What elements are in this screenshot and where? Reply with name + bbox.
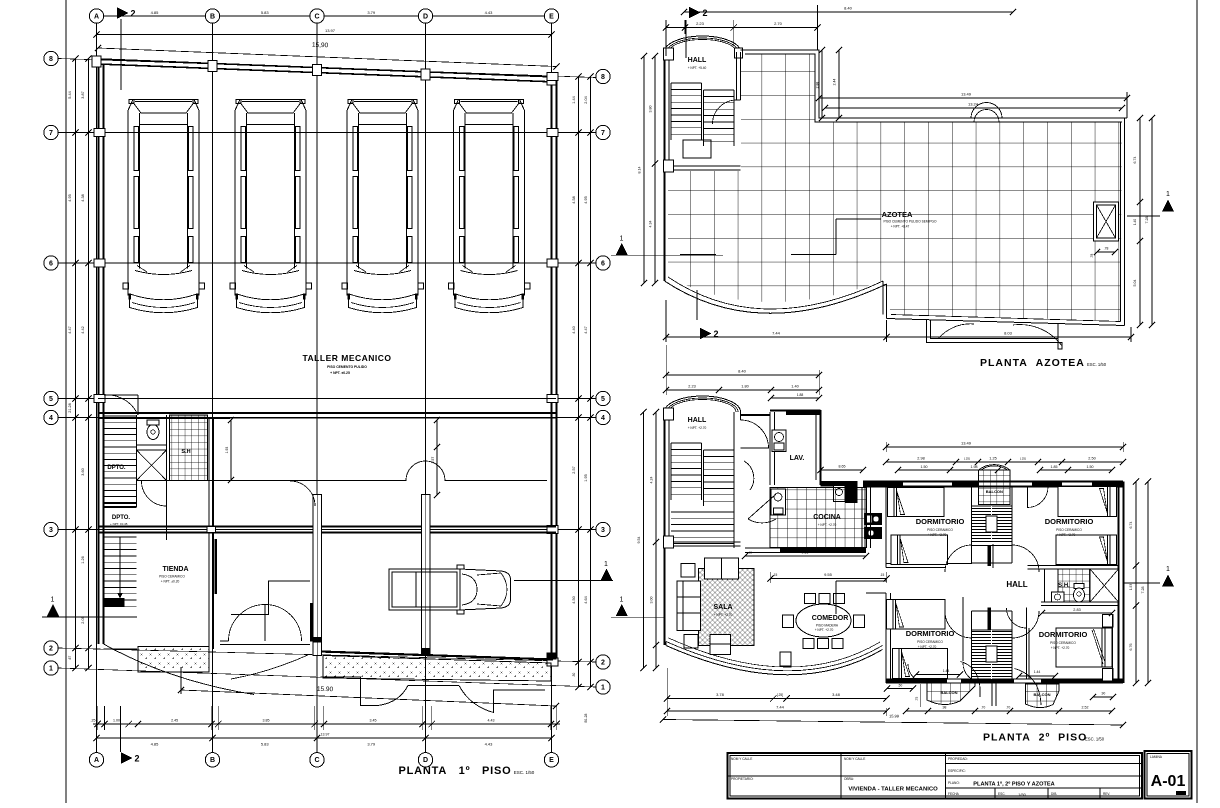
svg-text:2.45: 2.45: [171, 719, 178, 723]
svg-text:DPTO.: DPTO.: [112, 515, 131, 521]
svg-text:13.97: 13.97: [321, 732, 330, 736]
svg-text:1.00: 1.00: [113, 719, 120, 723]
svg-text:2: 2: [702, 8, 707, 18]
svg-text:2: 2: [601, 659, 605, 666]
svg-text:+ NPT. +2.70: + NPT. +2.70: [714, 613, 733, 617]
svg-text:4.43: 4.43: [488, 719, 495, 723]
svg-text:4.58: 4.58: [572, 196, 576, 203]
svg-text:.78: .78: [1090, 254, 1094, 259]
svg-text:1.25: 1.25: [989, 457, 996, 461]
svg-text:C: C: [314, 757, 319, 764]
svg-text:1: 1: [620, 236, 624, 243]
svg-text:PISO CERAMICO: PISO CERAMICO: [1056, 528, 1082, 532]
svg-text:4.34: 4.34: [649, 221, 653, 228]
svg-text:1: 1: [1166, 191, 1170, 198]
svg-text:+ NPT. ±0.25: + NPT. ±0.25: [330, 371, 350, 375]
svg-text:21.28: 21.28: [68, 403, 72, 413]
svg-text:1: 1: [49, 665, 53, 672]
svg-text:2.57: 2.57: [572, 466, 576, 473]
svg-text:4.47: 4.47: [584, 326, 588, 333]
svg-text:3.79: 3.79: [367, 10, 376, 15]
svg-text:4.38: 4.38: [81, 194, 85, 201]
svg-text:1.80: 1.80: [741, 385, 748, 389]
svg-text:B: B: [210, 757, 215, 764]
svg-text:OBRA:: OBRA:: [844, 777, 854, 781]
svg-text:DORMITORIO: DORMITORIO: [916, 517, 965, 526]
svg-text:.70: .70: [1006, 706, 1011, 710]
svg-text:.30: .30: [572, 673, 576, 678]
svg-text:2: 2: [713, 329, 718, 339]
svg-text:A: A: [94, 757, 99, 764]
svg-text:2.50: 2.50: [1088, 457, 1095, 461]
svg-text:1/50: 1/50: [1018, 793, 1025, 797]
svg-text:3.48: 3.48: [832, 692, 841, 697]
svg-text:BALCON: BALCON: [1033, 692, 1050, 697]
svg-text:7: 7: [49, 130, 53, 137]
svg-text:TIENDA: TIENDA: [162, 566, 188, 573]
svg-text:NOM Y CALLE: NOM Y CALLE: [731, 757, 752, 761]
svg-text:DORMITORIO: DORMITORIO: [1045, 517, 1094, 526]
svg-text:3.45: 3.45: [370, 719, 377, 723]
svg-text:+ NPT. +2.70: + NPT. +2.70: [1057, 533, 1076, 537]
svg-text:PLANTA AZOTEA: PLANTA AZOTEA: [980, 357, 1085, 369]
svg-text:+ NPT. +2.70: + NPT. +2.70: [928, 533, 947, 537]
svg-text:1.50: 1.50: [1087, 465, 1094, 469]
svg-text:ESC. 1/50: ESC. 1/50: [1085, 737, 1105, 742]
svg-text:[.25]: [.25]: [964, 457, 970, 461]
svg-text:3.00: 3.00: [650, 597, 654, 604]
svg-text:+ NPT. +2.70: + NPT. +2.70: [815, 628, 834, 632]
svg-text:TALLER MECANICO: TALLER MECANICO: [302, 353, 391, 363]
svg-text:AZOTEA: AZOTEA: [882, 210, 913, 219]
svg-text:1.85: 1.85: [1051, 465, 1058, 469]
svg-text:2.23: 2.23: [688, 385, 695, 389]
svg-text:1.44: 1.44: [1034, 670, 1041, 674]
svg-text:.75: .75: [915, 697, 919, 702]
svg-text:3.87: 3.87: [81, 91, 85, 98]
svg-text:4.43: 4.43: [485, 742, 494, 747]
svg-text:9.55: 9.55: [824, 572, 833, 577]
svg-text:8.03: 8.03: [1004, 331, 1013, 336]
svg-text:DORMITORIO: DORMITORIO: [1039, 630, 1088, 639]
svg-text:LAMINA: LAMINA: [1150, 755, 1163, 759]
svg-text:1.50: 1.50: [921, 465, 928, 469]
svg-text:.50: .50: [898, 684, 903, 688]
svg-text:PROPIEDAD:: PROPIEDAD:: [948, 757, 968, 761]
svg-text:6.74: 6.74: [1133, 157, 1137, 164]
svg-text:8: 8: [601, 74, 605, 81]
svg-text:COCINA: COCINA: [813, 514, 841, 521]
svg-text:15.90: 15.90: [317, 686, 334, 693]
svg-text:+ NPT. ±0.45: + NPT. ±0.45: [110, 522, 128, 526]
svg-text:LAV.: LAV.: [790, 455, 805, 462]
svg-text:7.28: 7.28: [1141, 587, 1145, 594]
svg-text:PISO MADERA: PISO MADERA: [816, 624, 839, 628]
svg-text:S.H: S.H: [181, 449, 190, 455]
svg-text:B1.28: B1.28: [584, 713, 588, 722]
svg-text:3: 3: [49, 527, 53, 534]
svg-text:2.44: 2.44: [833, 79, 837, 86]
svg-text:1: 1: [601, 684, 605, 691]
svg-text:4.40: 4.40: [572, 326, 576, 333]
svg-text:6.76: 6.76: [1129, 644, 1133, 651]
svg-text:6.74: 6.74: [1129, 522, 1133, 529]
svg-text:PISO CERAMICO: PISO CERAMICO: [927, 528, 953, 532]
svg-text:PLANTA 1º, 2º PISO Y AZOTEA: PLANTA 1º, 2º PISO Y AZOTEA: [973, 782, 1054, 788]
svg-text:.90: .90: [1101, 692, 1106, 696]
svg-text:1.40: 1.40: [791, 385, 798, 389]
svg-text:1: 1: [1166, 566, 1170, 573]
svg-text:PROPIETARIO:: PROPIETARIO:: [731, 777, 754, 781]
svg-text:.25: .25: [91, 719, 96, 723]
svg-text:+ NPT. +2.70: + NPT. +2.70: [688, 426, 707, 430]
svg-text:13.97: 13.97: [325, 28, 336, 33]
svg-text:[.25]: [.25]: [1020, 457, 1026, 461]
svg-text:3.78: 3.78: [716, 692, 725, 697]
svg-text:1.98: 1.98: [971, 465, 978, 469]
svg-text:4: 4: [49, 415, 53, 422]
svg-text:FECHA: FECHA: [948, 792, 960, 796]
svg-text:7.44: 7.44: [776, 705, 785, 710]
svg-text:PISO CEMENTO PULIDO: PISO CEMENTO PULIDO: [327, 365, 367, 369]
svg-text:5.04: 5.04: [1133, 280, 1137, 287]
svg-text:1.44: 1.44: [943, 669, 950, 673]
svg-text:2.04: 2.04: [584, 96, 588, 103]
svg-text:PLANO:: PLANO:: [948, 781, 960, 785]
svg-text:2.88: 2.88: [816, 82, 820, 89]
svg-text:6: 6: [601, 260, 605, 267]
svg-text:+ NPT. +2.70: + NPT. +2.70: [818, 523, 837, 527]
svg-text:5: 5: [49, 396, 53, 403]
svg-text:9.54: 9.54: [637, 537, 641, 544]
svg-text:BALCON: BALCON: [986, 489, 1003, 494]
svg-text:ESC.: ESC.: [998, 792, 1006, 796]
svg-text:DPTO.: DPTO.: [107, 465, 126, 471]
svg-text:DORMITORIO: DORMITORIO: [906, 629, 955, 638]
svg-text:VIVIENDA - TALLER MECANICO: VIVIENDA - TALLER MECANICO: [848, 787, 938, 793]
svg-text:[.25]: [.25]: [777, 693, 783, 697]
svg-text:2: 2: [49, 645, 53, 652]
svg-text:.15: .15: [773, 573, 778, 577]
svg-text:.67: .67: [68, 656, 72, 661]
svg-text:4.43: 4.43: [485, 10, 494, 15]
svg-text:D: D: [423, 757, 428, 764]
svg-text:13.49: 13.49: [961, 92, 972, 97]
svg-text:6: 6: [49, 260, 53, 267]
svg-text:2.05: 2.05: [81, 616, 85, 623]
svg-text:PISO CEMENTO PULIDO SEMIPGO: PISO CEMENTO PULIDO SEMIPGO: [884, 220, 937, 224]
svg-text:1.40: 1.40: [1133, 219, 1137, 225]
svg-text:+ NPT. +2.70: + NPT. +2.70: [918, 645, 937, 649]
svg-text:7: 7: [601, 130, 605, 137]
svg-text:5.83: 5.83: [261, 10, 270, 15]
svg-text:HALL: HALL: [1006, 580, 1027, 589]
svg-text:15,90: 15,90: [312, 42, 329, 50]
svg-text:4.42: 4.42: [81, 326, 85, 333]
svg-text:C: C: [314, 13, 319, 20]
svg-text:8.40: 8.40: [844, 6, 853, 11]
svg-text:15.99: 15.99: [889, 713, 900, 718]
svg-text:2.70: 2.70: [774, 21, 783, 26]
svg-text:+ NPT. +2.70: + NPT. +2.70: [1051, 646, 1070, 650]
svg-text:13.49: 13.49: [961, 441, 972, 446]
svg-text:4.47: 4.47: [68, 326, 72, 333]
svg-text:.78: .78: [1104, 247, 1109, 251]
svg-text:1.26: 1.26: [81, 556, 85, 563]
svg-text:1.88: 1.88: [797, 393, 804, 397]
svg-text:D: D: [423, 13, 428, 20]
svg-text:2.98: 2.98: [917, 457, 924, 461]
svg-text:.90: .90: [987, 555, 991, 560]
svg-text:ESC. 1/50: ESC. 1/50: [514, 770, 535, 775]
svg-text:ESPECIFIC:: ESPECIFIC:: [948, 769, 966, 773]
svg-text:13.24: 13.24: [968, 102, 979, 107]
svg-text:1: 1: [620, 597, 624, 604]
svg-text:+ NPT. +5.40: + NPT. +5.40: [688, 66, 707, 70]
svg-text:2: 2: [130, 9, 135, 19]
svg-text:1: 1: [604, 561, 608, 568]
svg-text:8.65: 8.65: [839, 465, 846, 469]
svg-text:4.24: 4.24: [650, 477, 654, 484]
svg-text:1.93: 1.93: [225, 447, 229, 454]
svg-text:3.60: 3.60: [81, 468, 85, 475]
svg-text:REV.: REV.: [1103, 792, 1110, 796]
svg-text:4.64: 4.64: [584, 596, 588, 603]
svg-text:NOM Y CALLE: NOM Y CALLE: [844, 757, 865, 761]
svg-text:5.83: 5.83: [261, 742, 270, 747]
svg-text:PLANTA 1º PISO: PLANTA 1º PISO: [399, 765, 512, 777]
svg-text:E: E: [549, 757, 554, 764]
svg-text:PLANTA 2º PISO: PLANTA 2º PISO: [983, 732, 1087, 744]
svg-text:5.44: 5.44: [68, 91, 72, 98]
svg-text:HALL: HALL: [688, 417, 707, 424]
svg-text:A-01: A-01: [1151, 773, 1186, 790]
svg-text:A: A: [94, 13, 99, 20]
svg-text:4.95: 4.95: [584, 196, 588, 203]
svg-text:2.83: 2.83: [1073, 608, 1080, 612]
svg-text:.15: .15: [880, 573, 885, 577]
svg-text:8.40: 8.40: [738, 369, 747, 374]
svg-text:2.57: 2.57: [431, 457, 435, 464]
svg-text:7.44: 7.44: [772, 331, 781, 336]
svg-text:HALL: HALL: [688, 57, 707, 64]
svg-text:.98: .98: [942, 706, 947, 710]
svg-text:DIB.: DIB.: [1051, 792, 1057, 796]
svg-text:BALCON: BALCON: [940, 690, 957, 695]
svg-text:PISO CERAMICO: PISO CERAMICO: [159, 575, 185, 579]
svg-text:3: 3: [601, 527, 605, 534]
svg-text:8.14: 8.14: [638, 167, 642, 174]
svg-text:+ NPT. ±0.20: + NPT. ±0.20: [161, 580, 180, 584]
svg-text:8: 8: [49, 56, 53, 63]
svg-text:1.93: 1.93: [1129, 584, 1133, 590]
svg-text:.70: .70: [981, 706, 986, 710]
svg-text:COMEDOR: COMEDOR: [812, 615, 849, 622]
svg-text:S.H.: S.H.: [1058, 583, 1070, 589]
svg-text:1.95: 1.95: [584, 474, 588, 481]
svg-text:SALA: SALA: [713, 604, 732, 611]
svg-text:4.85: 4.85: [151, 742, 160, 747]
svg-text:9.55: 9.55: [802, 551, 809, 555]
svg-text:1.44: 1.44: [572, 96, 576, 103]
svg-text:4: 4: [601, 415, 605, 422]
svg-text:PISO CERAMICO: PISO CERAMICO: [917, 640, 943, 644]
svg-text:PISO CERAMICO: PISO CERAMICO: [1050, 641, 1076, 645]
svg-text:2: 2: [134, 754, 139, 764]
svg-text:3.79: 3.79: [367, 742, 376, 747]
svg-text:4.50: 4.50: [572, 596, 576, 603]
svg-text:4.95: 4.95: [68, 194, 72, 201]
svg-text:B: B: [210, 13, 215, 20]
svg-text:2.23: 2.23: [696, 21, 705, 26]
svg-text:7.28: 7.28: [1145, 217, 1149, 224]
svg-text:1: 1: [51, 597, 55, 604]
svg-text:3.80: 3.80: [649, 106, 653, 113]
svg-text:5: 5: [601, 396, 605, 403]
svg-text:+ NPT. +8.47: + NPT. +8.47: [891, 225, 910, 229]
svg-text:4.85: 4.85: [151, 10, 160, 15]
svg-text:ESC. 1/50: ESC. 1/50: [1087, 362, 1107, 367]
svg-text:E: E: [549, 13, 554, 20]
svg-text:2.52: 2.52: [1082, 706, 1089, 710]
svg-text:3.85: 3.85: [263, 719, 270, 723]
svg-text:.15: .15: [748, 551, 753, 555]
